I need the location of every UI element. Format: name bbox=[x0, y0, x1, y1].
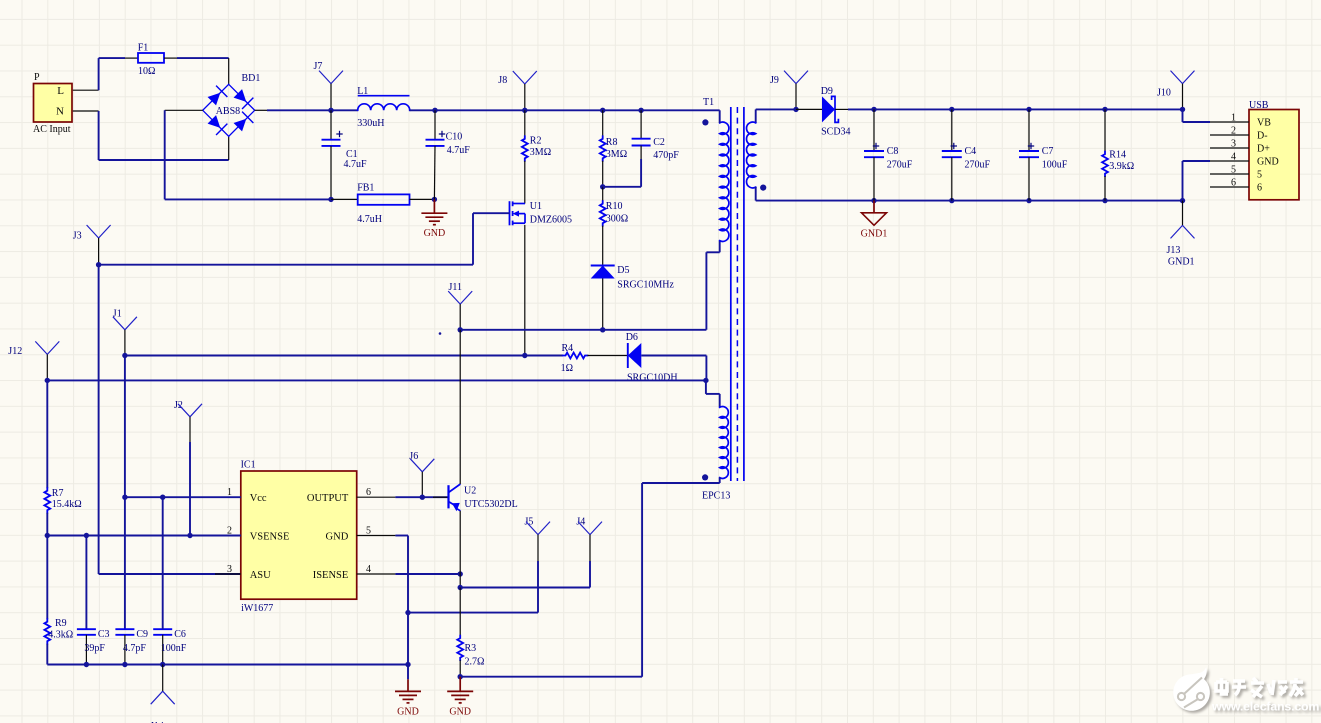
svg-text:R14: R14 bbox=[1109, 150, 1126, 161]
svg-text:4.7uF: 4.7uF bbox=[344, 159, 368, 170]
svg-text:4.7uH: 4.7uH bbox=[357, 214, 382, 225]
svg-text:5: 5 bbox=[366, 526, 371, 537]
svg-text:R2: R2 bbox=[530, 136, 542, 147]
svg-text:6: 6 bbox=[366, 487, 371, 498]
svg-text:GND: GND bbox=[397, 706, 419, 717]
svg-text:GND: GND bbox=[326, 531, 349, 542]
svg-text:P: P bbox=[34, 72, 40, 83]
svg-text:U2: U2 bbox=[464, 486, 476, 497]
svg-text:SRGC10DH: SRGC10DH bbox=[627, 372, 678, 383]
svg-text:GND: GND bbox=[424, 228, 446, 239]
svg-text:N: N bbox=[56, 106, 64, 118]
svg-text:VSENSE: VSENSE bbox=[250, 531, 290, 542]
svg-text:D5: D5 bbox=[617, 265, 629, 276]
svg-text:C8: C8 bbox=[887, 146, 899, 157]
svg-text:GND: GND bbox=[1257, 157, 1279, 168]
svg-text:6: 6 bbox=[1231, 178, 1236, 189]
svg-text:GND1: GND1 bbox=[1168, 256, 1195, 267]
svg-text:1: 1 bbox=[1231, 113, 1236, 124]
svg-text:D+: D+ bbox=[1257, 144, 1270, 155]
svg-text:IC1: IC1 bbox=[241, 460, 256, 471]
svg-text:C6: C6 bbox=[174, 629, 186, 640]
svg-text:C9: C9 bbox=[136, 629, 148, 640]
svg-text:R9: R9 bbox=[55, 618, 67, 629]
svg-text:J3: J3 bbox=[73, 231, 82, 242]
svg-text:R10: R10 bbox=[606, 201, 623, 212]
svg-text:F1: F1 bbox=[138, 43, 149, 54]
svg-text:R3: R3 bbox=[465, 643, 477, 654]
svg-text:4: 4 bbox=[366, 564, 371, 575]
svg-text:L: L bbox=[57, 85, 64, 97]
svg-text:4.7uF: 4.7uF bbox=[447, 145, 471, 156]
svg-text:USB: USB bbox=[1249, 100, 1269, 111]
svg-text:300Ω: 300Ω bbox=[606, 214, 628, 225]
svg-text:10Ω: 10Ω bbox=[138, 66, 155, 77]
svg-text:470pF: 470pF bbox=[653, 150, 679, 161]
svg-text:3MΩ: 3MΩ bbox=[606, 149, 627, 160]
svg-text:EPC13: EPC13 bbox=[702, 491, 730, 502]
svg-text:J10: J10 bbox=[1157, 88, 1171, 99]
svg-text:U1: U1 bbox=[530, 201, 542, 212]
svg-text:J8: J8 bbox=[498, 75, 507, 86]
svg-text:J6: J6 bbox=[409, 451, 418, 462]
svg-text:BD1: BD1 bbox=[242, 73, 261, 84]
svg-text:100nF: 100nF bbox=[161, 643, 187, 654]
svg-text:C10: C10 bbox=[446, 132, 463, 143]
svg-text:iW1677: iW1677 bbox=[241, 603, 273, 614]
svg-text:ASU: ASU bbox=[250, 570, 271, 581]
svg-text:C4: C4 bbox=[965, 146, 977, 157]
svg-text:270uF: 270uF bbox=[887, 160, 913, 171]
svg-text:3: 3 bbox=[227, 564, 232, 575]
svg-text:R7: R7 bbox=[52, 488, 64, 499]
svg-text:D-: D- bbox=[1257, 131, 1268, 142]
svg-text:39pF: 39pF bbox=[84, 643, 105, 654]
svg-text:www.elecfans.com: www.elecfans.com bbox=[1211, 700, 1319, 714]
svg-text:J7: J7 bbox=[314, 61, 323, 72]
svg-text:C3: C3 bbox=[98, 629, 110, 640]
svg-text:R4: R4 bbox=[562, 343, 574, 354]
svg-text:3.9kΩ: 3.9kΩ bbox=[1109, 161, 1134, 172]
svg-text:AC Input: AC Input bbox=[33, 124, 71, 135]
svg-text:J11: J11 bbox=[449, 282, 463, 293]
svg-text:C7: C7 bbox=[1042, 146, 1054, 157]
svg-text:3MΩ: 3MΩ bbox=[530, 147, 551, 158]
svg-text:4.7pF: 4.7pF bbox=[123, 643, 146, 654]
svg-text:SCD34: SCD34 bbox=[821, 126, 850, 137]
svg-text:L1: L1 bbox=[357, 86, 368, 97]
svg-text:5: 5 bbox=[1257, 170, 1262, 181]
svg-text:GND: GND bbox=[449, 706, 471, 717]
svg-text:4: 4 bbox=[1231, 152, 1236, 163]
svg-text:T1: T1 bbox=[703, 97, 714, 108]
svg-text:DMZ6005: DMZ6005 bbox=[530, 215, 572, 226]
svg-text:J12: J12 bbox=[8, 346, 22, 357]
svg-text:15.4kΩ: 15.4kΩ bbox=[52, 499, 82, 510]
svg-text:2: 2 bbox=[1231, 126, 1236, 137]
svg-text:1Ω: 1Ω bbox=[561, 363, 573, 374]
svg-text:270uF: 270uF bbox=[965, 160, 991, 171]
svg-text:R8: R8 bbox=[606, 137, 618, 148]
svg-text:VB: VB bbox=[1257, 118, 1271, 129]
svg-text:OUTPUT: OUTPUT bbox=[307, 493, 349, 504]
svg-text:ISENSE: ISENSE bbox=[313, 570, 349, 581]
svg-text:D9: D9 bbox=[821, 86, 833, 97]
svg-text:J9: J9 bbox=[770, 75, 779, 86]
svg-text:D6: D6 bbox=[626, 332, 638, 343]
svg-text:ABS8: ABS8 bbox=[216, 106, 240, 117]
svg-text:330uH: 330uH bbox=[357, 118, 384, 129]
svg-text:6: 6 bbox=[1257, 183, 1262, 194]
svg-text:C2: C2 bbox=[653, 137, 665, 148]
svg-text:UTC5302DL: UTC5302DL bbox=[464, 499, 517, 510]
svg-text:GND1: GND1 bbox=[861, 229, 888, 240]
svg-text:4.3kΩ: 4.3kΩ bbox=[48, 629, 73, 640]
svg-text:FB1: FB1 bbox=[357, 183, 374, 194]
svg-text:5: 5 bbox=[1231, 165, 1236, 176]
svg-text:3: 3 bbox=[1231, 139, 1236, 150]
svg-text:100uF: 100uF bbox=[1042, 160, 1068, 171]
svg-text:SRGC10MHz: SRGC10MHz bbox=[617, 280, 674, 291]
svg-text:Vcc: Vcc bbox=[250, 493, 267, 504]
svg-text:J2: J2 bbox=[174, 400, 183, 411]
svg-text:2.7Ω: 2.7Ω bbox=[465, 656, 485, 667]
svg-text:J13: J13 bbox=[1167, 245, 1181, 256]
